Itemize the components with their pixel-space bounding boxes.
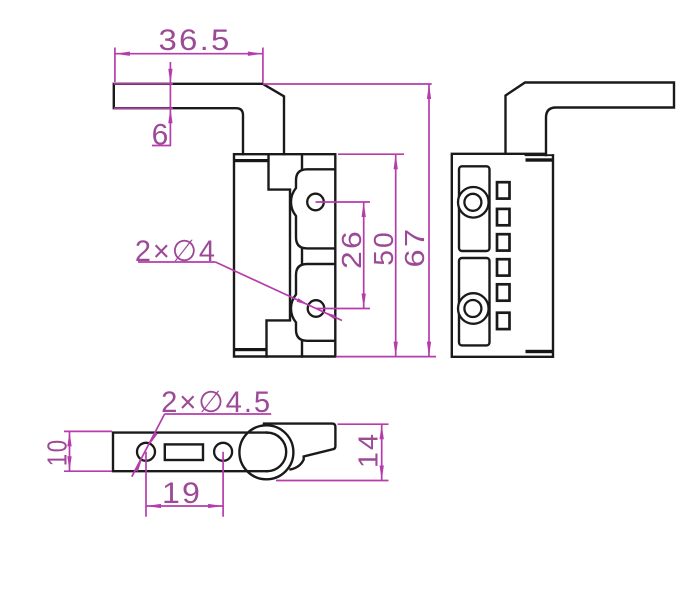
dim 14 arrow up bbox=[380, 424, 384, 439]
dim 67 arrow down bbox=[427, 342, 431, 357]
bottom view bar end cap arc bbox=[267, 433, 286, 472]
right view knuckle 2 outer bbox=[458, 293, 489, 324]
bottom view head outer circle bbox=[239, 425, 293, 479]
svg-text:36.5: 36.5 bbox=[159, 24, 232, 57]
dim 10 line bbox=[69, 431, 71, 471]
dim 6 text underline bbox=[152, 145, 171, 147]
dim 10 arrow down bbox=[67, 456, 71, 471]
leader 2x045 underline bbox=[164, 413, 271, 415]
bottom view bar bbox=[113, 433, 267, 472]
right view square slot 3 bbox=[497, 234, 510, 250]
dim 26 arrow up bbox=[362, 202, 366, 217]
dim 50 arrow down bbox=[394, 342, 398, 357]
dim 50 line bbox=[395, 154, 397, 356]
dim 36.5 arrow left bbox=[115, 52, 130, 56]
dim 36.5 extension left bbox=[114, 48, 116, 83]
svg-text:50: 50 bbox=[368, 230, 399, 266]
dim 67 arrow up bbox=[427, 84, 431, 99]
right view body outline bbox=[452, 154, 553, 357]
right view square slot 5 bbox=[497, 284, 510, 300]
front view ear 2 bbox=[291, 264, 335, 341]
front view inner step contour bbox=[267, 154, 291, 356]
dim 26 extension bottom bbox=[316, 308, 370, 310]
leader 2x04 line bbox=[215, 262, 342, 321]
dim 19 arrow right bbox=[208, 504, 223, 508]
dim 19 line bbox=[146, 505, 223, 507]
dim 26 extension top bbox=[316, 201, 371, 203]
dim 6 extension overlap bottom bbox=[114, 107, 173, 109]
right view square slot 6 bbox=[497, 313, 510, 329]
dim 50 top extension bbox=[338, 153, 404, 155]
right view panel B bbox=[459, 258, 490, 345]
dim 14 line bbox=[381, 424, 383, 480]
dim 67 top extension bbox=[263, 83, 432, 85]
leader 2x045 arrow lower bbox=[134, 460, 142, 472]
leader 2x045 line bbox=[132, 414, 165, 477]
dim 26 line bbox=[363, 202, 365, 309]
front view web line top bbox=[301, 154, 303, 169]
dim 19 extension right bbox=[222, 452, 224, 517]
bottom view latch finger bbox=[264, 424, 335, 470]
front view hole 1 bbox=[307, 194, 324, 211]
leader 2x04 arrow lower bbox=[323, 312, 335, 319]
right view knuckle 1 outer bbox=[458, 187, 489, 218]
leader 2x045 arrow upper bbox=[150, 432, 158, 444]
dim 36.5 arrow right bbox=[248, 52, 263, 56]
dim 14 arrow down bbox=[380, 466, 384, 481]
dim 10 extension bottom bbox=[64, 470, 112, 472]
bottom view hole 2 bbox=[214, 443, 232, 461]
svg-text:10: 10 bbox=[42, 438, 73, 466]
right view knuckle 2 inner bbox=[464, 300, 481, 317]
dim 19 extension left bbox=[145, 452, 147, 517]
dim 6 line bbox=[169, 62, 171, 146]
dim 14 extension top bbox=[338, 423, 389, 425]
right view top notch thin line bbox=[526, 154, 554, 156]
dim 10 extension top bbox=[64, 430, 112, 432]
front view top sheet bar bbox=[234, 159, 269, 162]
right view top notch thick bar bbox=[526, 158, 554, 161]
front view hole 2 bbox=[308, 300, 325, 317]
dim 10 arrow up bbox=[67, 431, 71, 446]
leader 2x04 arrow upper bbox=[297, 298, 309, 305]
dim 67 line bbox=[428, 84, 430, 357]
bottom view hole 1 bbox=[137, 443, 155, 461]
dim 6 arrow up bbox=[168, 108, 172, 123]
dim 14 extension bottom bbox=[276, 480, 389, 482]
dim 36.5 extension right bbox=[262, 48, 264, 83]
dim 6 extension overlap top bbox=[114, 83, 173, 85]
right view bottom notch thick bar bbox=[526, 350, 554, 353]
right view arm outline bbox=[506, 83, 675, 156]
front view arm outline bbox=[114, 84, 284, 154]
svg-text:19: 19 bbox=[162, 477, 202, 510]
front view web line bottom bbox=[301, 341, 303, 357]
right view square slot 2 bbox=[497, 209, 510, 225]
front view body rectangle bbox=[234, 154, 335, 356]
leader 2x04 underline bbox=[138, 261, 215, 263]
svg-text:2×∅4: 2×∅4 bbox=[135, 235, 217, 268]
dim 50 arrow up bbox=[394, 154, 398, 169]
svg-text:2×∅4.5: 2×∅4.5 bbox=[161, 386, 272, 419]
right view square slot 1 bbox=[497, 182, 510, 198]
right view square slot 4 bbox=[497, 259, 510, 275]
svg-text:26: 26 bbox=[336, 229, 367, 269]
front view web line middle bbox=[301, 248, 303, 264]
right view panel A bbox=[459, 166, 490, 251]
svg-text:6: 6 bbox=[152, 119, 171, 152]
front view bottom sheet bar bbox=[234, 348, 267, 351]
dim 50 67 bottom extension bbox=[336, 356, 436, 358]
dim 26 arrow down bbox=[362, 294, 366, 309]
right view knuckle 1 inner bbox=[464, 194, 481, 211]
svg-text:14: 14 bbox=[353, 432, 384, 468]
svg-text:67: 67 bbox=[399, 227, 430, 268]
front view ear 1 bbox=[291, 169, 335, 248]
dim 6 arrow down bbox=[168, 69, 172, 84]
dim 19 arrow left bbox=[146, 504, 161, 508]
bottom view slot bbox=[165, 444, 203, 460]
dim 36.5 line bbox=[115, 53, 263, 55]
